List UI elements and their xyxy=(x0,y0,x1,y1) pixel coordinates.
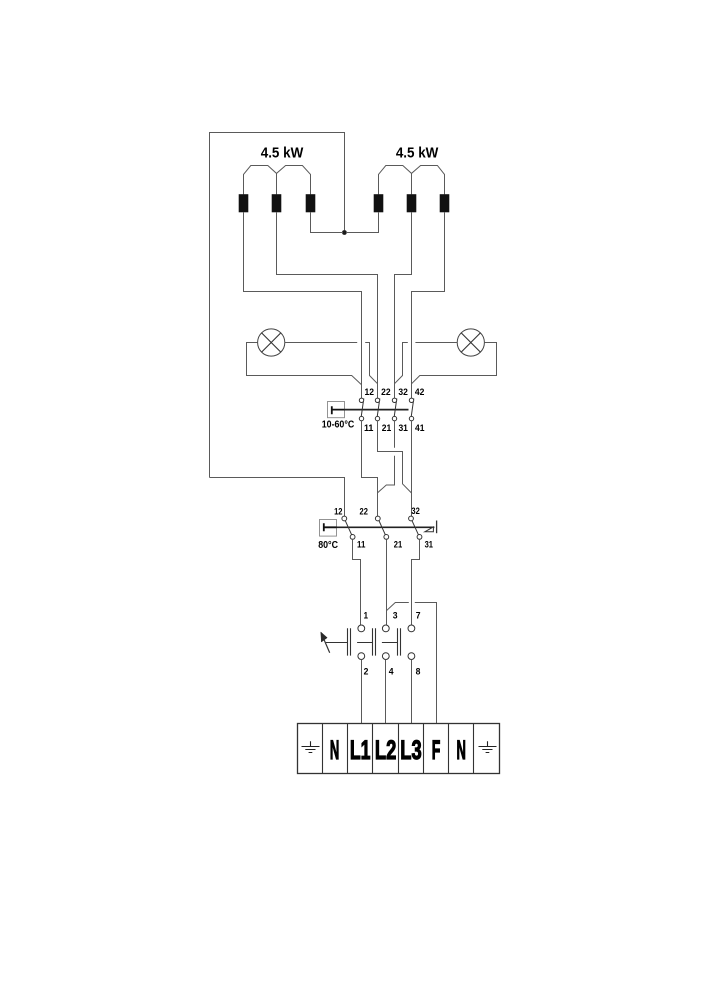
heating element R1 xyxy=(239,194,249,212)
contact blade 42-41 xyxy=(411,398,414,421)
wire: top feed loop from supply to star junction xyxy=(210,133,345,478)
contact blade T2 22-21 xyxy=(377,516,388,539)
svg-text:80°C: 80°C xyxy=(318,540,338,551)
thermostat T2 box (80C) xyxy=(320,520,337,537)
svg-text:4: 4 xyxy=(389,666,395,676)
svg-text:4.5 kW: 4.5 kW xyxy=(261,144,304,161)
contact blade T2 12-11 xyxy=(343,516,354,539)
wire: R5 bottom to thermostat contact 32 xyxy=(395,212,412,398)
svg-text:10-60°C: 10-60°C xyxy=(322,419,355,430)
wire: T1 contact 21 to 80C contact 32 xyxy=(378,421,412,493)
svg-text:11: 11 xyxy=(357,539,365,549)
svg-text:1: 1 xyxy=(364,610,368,620)
wire: T1 contact 11 to 80C contact 22 xyxy=(362,421,378,516)
contact blade 22-21 xyxy=(377,398,380,421)
contact blade T2 32-31 xyxy=(410,516,421,539)
heating element R5 xyxy=(407,194,417,212)
heating element R3 xyxy=(306,194,316,212)
svg-text:N: N xyxy=(457,735,466,765)
heating element R6 xyxy=(440,194,450,212)
svg-text:3: 3 xyxy=(393,610,398,620)
wire: T1 contact 41 to 80C contact 32 xyxy=(411,421,413,516)
wire: R1 bottom to thermostat contact 12 xyxy=(244,212,362,398)
svg-text:22: 22 xyxy=(360,506,368,516)
switch S1 pole 1 bridge xyxy=(348,628,351,655)
wire: R4 bottom to star junction xyxy=(346,212,379,232)
svg-text:32: 32 xyxy=(398,387,408,397)
labels: T2 top terminals 12 22 32 xyxy=(334,506,420,516)
svg-text:L3: L3 xyxy=(400,735,421,765)
thermostat T2 actuator bar xyxy=(337,526,435,528)
svg-text:2: 2 xyxy=(364,666,369,676)
wire: switch terminal 8 to L3 xyxy=(411,660,413,724)
terminal labels N L1 L2 L3 F N xyxy=(330,735,466,765)
lamp H2 xyxy=(457,329,484,356)
svg-text:N: N xyxy=(330,735,339,765)
svg-text:F: F xyxy=(432,735,441,765)
heating element R2 xyxy=(272,194,282,212)
switch S1 pole 3 bridge xyxy=(398,628,401,655)
switch terminal circles xyxy=(358,625,415,659)
contact terminal circles T1 xyxy=(359,398,413,421)
wire: R3 bottom to star junction xyxy=(311,212,344,232)
switch S1 manual actuation arrow xyxy=(322,634,330,653)
lamp H1 xyxy=(258,329,285,356)
wire: T2 contact 21 to switch terminal 3 xyxy=(386,539,388,625)
wire: lamp H1 right terminal to contact 22 (crosses with gap) xyxy=(285,343,378,384)
svg-text:L1: L1 xyxy=(350,735,371,765)
ground symbol right xyxy=(479,741,497,752)
wire: bridge over heater group 2 xyxy=(379,166,445,195)
wire: lamp H2 left terminal to contact 32 (crosses with gap) xyxy=(395,343,458,384)
thermostat T1 actuator bar xyxy=(345,409,409,411)
svg-text:31: 31 xyxy=(398,423,408,433)
labels: T2 bottom terminals 11 21 31 xyxy=(357,539,433,549)
svg-text:7: 7 xyxy=(416,610,421,620)
svg-text:21: 21 xyxy=(382,423,392,433)
labels: switch top terminals 1 3 7 xyxy=(364,610,421,620)
wire: bridge over heater group 1 xyxy=(244,166,311,195)
svg-text:8: 8 xyxy=(416,666,421,676)
wire: R2 bottom to thermostat contact 22 xyxy=(277,212,378,398)
svg-text:31: 31 xyxy=(425,539,433,549)
wire: left outer loop feeding 80C thermostat contact 12 xyxy=(210,478,345,517)
wire: T2 contact 31 to switch terminal 7 xyxy=(412,539,420,625)
terminal block X1 xyxy=(298,724,500,774)
svg-text:12: 12 xyxy=(365,387,375,397)
svg-text:4.5 kW: 4.5 kW xyxy=(396,144,439,161)
node A: star junction dot xyxy=(342,230,347,235)
wire: lamp H1 left terminal to contact 12 xyxy=(247,343,362,385)
T2 actuator end stop bar xyxy=(436,521,438,534)
wire: T1 contact 31 merging into 80C contact 22 (gap at crossing) xyxy=(378,421,395,493)
contact blade 32-31 xyxy=(394,398,397,421)
ground symbol left xyxy=(302,741,320,752)
svg-text:11: 11 xyxy=(364,423,374,433)
heating element R4 xyxy=(374,194,384,212)
svg-text:22: 22 xyxy=(381,387,391,397)
svg-text:42: 42 xyxy=(415,387,425,397)
labels: switch bottom terminals 2 4 8 xyxy=(364,666,421,676)
wire: lamp H2 right terminal to contact 42 xyxy=(412,343,497,384)
contact blade 12-11 xyxy=(361,398,364,421)
switch S1 actuator line xyxy=(326,642,398,644)
wire: switch terminal 4 to L2 xyxy=(385,660,387,724)
switch S1 pole 2 bridge xyxy=(373,628,376,655)
svg-text:32: 32 xyxy=(411,506,419,516)
wire: branch from 21 wire to terminal F (bypass) xyxy=(387,603,437,724)
svg-text:21: 21 xyxy=(394,539,402,549)
wire: switch terminal 2 to L1 xyxy=(361,660,363,724)
T2 actuator reset triangle xyxy=(425,527,434,532)
wire: R6 bottom to thermostat contact 42 xyxy=(412,212,445,398)
svg-text:41: 41 xyxy=(415,423,425,433)
thermostat T1 box (10-60C) xyxy=(328,402,345,418)
wire: T2 contact 11 to switch terminal 1 xyxy=(353,539,361,625)
labels: T1 bottom terminals 11 21 31 41 xyxy=(364,423,425,433)
svg-text:12: 12 xyxy=(334,506,342,516)
labels: T1 top terminals 12 22 32 42 xyxy=(365,387,425,397)
contact terminal circles T2 xyxy=(342,516,422,539)
svg-text:L2: L2 xyxy=(375,735,396,765)
